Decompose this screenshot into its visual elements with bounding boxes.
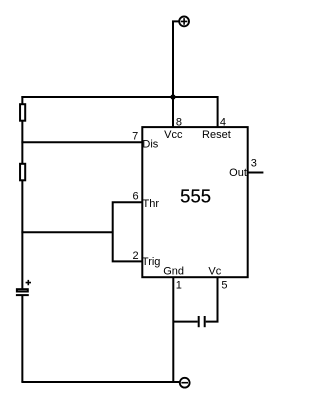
capacitor C2: [199, 316, 205, 327]
wire joining Thr pin 6 and Trig pin 2: [113, 202, 143, 261]
svg-text:1: 1: [176, 280, 182, 292]
battery negative terminal: [180, 378, 190, 388]
svg-text:555: 555: [180, 186, 211, 207]
resistor R1: [20, 104, 25, 121]
wire from supply positive terminal down to IC pin 8: [173, 21, 179, 127]
svg-text:2: 2: [132, 250, 138, 262]
capacitor C1 (polarized electrolytic): [16, 280, 31, 295]
wire to Reset pin 4: [217, 96, 219, 127]
svg-text:Thr: Thr: [143, 198, 160, 210]
svg-text:6: 6: [132, 191, 138, 203]
junction node on Vcc rail: [170, 94, 175, 99]
wire from Vc pin 5 to capacitor C2: [206, 277, 218, 321]
svg-text:Trig: Trig: [142, 256, 161, 268]
svg-text:Dis: Dis: [142, 138, 158, 150]
svg-text:3: 3: [251, 158, 257, 170]
left column wire lower segment: [21, 295, 23, 382]
Out pin 3 stub: [248, 172, 264, 174]
wire to Dis pin 7: [21, 141, 142, 143]
wire from RC node to Thr/Trig junction: [21, 231, 112, 233]
svg-text:8: 8: [176, 117, 182, 129]
top horizontal wire (Vcc rail): [21, 96, 218, 98]
svg-text:5: 5: [221, 280, 227, 292]
wire from capacitor C2 to pin 1 wire: [173, 321, 197, 323]
svg-text:Out: Out: [229, 167, 247, 179]
resistor R2: [20, 164, 25, 181]
svg-text:Reset: Reset: [202, 129, 231, 141]
timer IC U1 555 body: [142, 127, 247, 277]
svg-text:4: 4: [220, 117, 226, 129]
svg-text:Vc: Vc: [208, 265, 221, 277]
left column wire upper segment: [21, 96, 23, 289]
svg-text:Gnd: Gnd: [163, 265, 184, 277]
svg-text:Vcc: Vcc: [164, 129, 183, 141]
bottom horizontal wire (ground rail): [21, 381, 179, 383]
svg-text:7: 7: [132, 130, 138, 142]
battery positive terminal: [179, 17, 189, 27]
wire from Gnd pin 1 down to ground rail: [172, 277, 174, 382]
